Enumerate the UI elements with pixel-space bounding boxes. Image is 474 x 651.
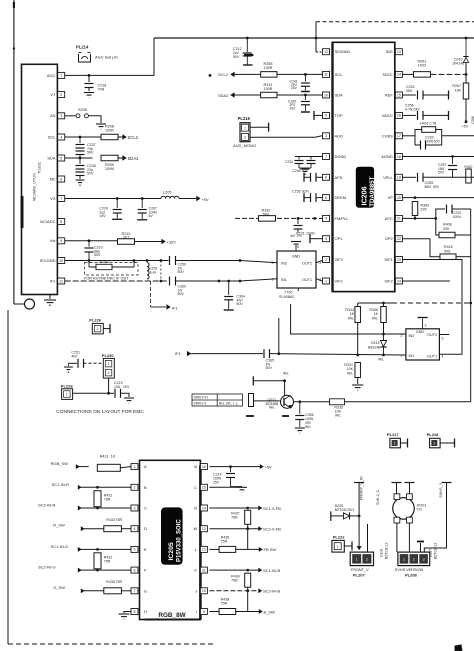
svg-text:J: J bbox=[195, 588, 197, 593]
svg-text:2: 2 bbox=[366, 558, 368, 562]
svg-text:12: 12 bbox=[202, 548, 206, 552]
svg-text:SCL: SCL bbox=[48, 134, 57, 139]
svg-text:E: E bbox=[144, 547, 147, 552]
svg-text:+5V: +5V bbox=[265, 464, 273, 469]
svg-text:PL217: PL217 bbox=[387, 432, 400, 437]
svg-text:IF1: IF1 bbox=[172, 306, 178, 310]
svg-text:FOR ASYMETRIC IF OUT: FOR ASYMETRIC IF OUT bbox=[84, 276, 129, 280]
svg-text:75R: 75R bbox=[231, 579, 238, 583]
svg-text:Y/C: Y/C bbox=[416, 508, 422, 512]
svg-text:SIOMAD: SIOMAD bbox=[335, 49, 351, 54]
svg-text:C246: C246 bbox=[292, 169, 301, 173]
svg-text:1K: 1K bbox=[111, 455, 116, 459]
svg-text:+5V: +5V bbox=[201, 197, 209, 202]
svg-text:FB SW: FB SW bbox=[264, 547, 277, 552]
svg-text:REF: REF bbox=[385, 93, 394, 98]
svg-text:L205: L205 bbox=[163, 191, 171, 195]
svg-text:100N: 100N bbox=[306, 232, 315, 236]
svg-text:R410: R410 bbox=[465, 165, 473, 169]
svg-text:OUT2: OUT2 bbox=[427, 333, 437, 337]
svg-text:PL216: PL216 bbox=[238, 116, 251, 121]
svg-text:W/L: W/L bbox=[378, 358, 384, 362]
svg-text:1: 1 bbox=[97, 327, 99, 331]
svg-text:2: 2 bbox=[244, 136, 246, 140]
svg-text:SVH-2_C: SVH-2_C bbox=[376, 489, 380, 505]
svg-text:I: I bbox=[196, 609, 197, 614]
svg-text:R433: R433 bbox=[106, 518, 115, 522]
svg-text:5: 5 bbox=[325, 237, 327, 241]
svg-text:2: 2 bbox=[134, 486, 136, 490]
svg-text:1K02: 1K02 bbox=[418, 64, 426, 68]
svg-text:FRONT_V: FRONT_V bbox=[351, 568, 369, 572]
svg-text:DGND: DGND bbox=[335, 154, 347, 159]
svg-text:SC1-0-FB: SC1-0-FB bbox=[263, 506, 281, 511]
svg-text:DEEM: DEEM bbox=[335, 195, 347, 200]
svg-text:70N: 70N bbox=[98, 88, 105, 92]
svg-text:B: B bbox=[144, 485, 147, 490]
svg-text:25V: 25V bbox=[291, 86, 298, 90]
svg-text:IF2/GND: IF2/GND bbox=[40, 258, 56, 263]
svg-text:10K: 10K bbox=[455, 89, 462, 93]
svg-text:4: 4 bbox=[60, 135, 62, 139]
svg-text:SC1-IN-R: SC1-IN-R bbox=[52, 482, 69, 487]
svg-text:5K6: 5K6 bbox=[444, 249, 450, 253]
svg-text:75R: 75R bbox=[104, 498, 111, 502]
svg-text:AFC: AFC bbox=[385, 216, 393, 221]
svg-text:21: 21 bbox=[397, 217, 401, 221]
svg-text:20K: 20K bbox=[443, 227, 450, 231]
svg-text:10: 10 bbox=[202, 589, 206, 593]
svg-text:25V: 25V bbox=[213, 481, 220, 485]
svg-text:7705: 7705 bbox=[284, 291, 292, 295]
svg-text:NC/ADC: NC/ADC bbox=[40, 219, 55, 224]
svg-text:13: 13 bbox=[202, 527, 206, 531]
svg-text:G: G bbox=[144, 588, 147, 593]
svg-text:IN1: IN1 bbox=[409, 354, 415, 358]
svg-text:16V: 16V bbox=[99, 214, 106, 218]
svg-text:3: 3 bbox=[423, 558, 425, 562]
svg-text:SC2-IN-G: SC2-IN-G bbox=[38, 564, 56, 569]
svg-text:10: 10 bbox=[324, 93, 328, 97]
svg-text:VIF2: VIF2 bbox=[335, 257, 344, 262]
svg-text:10U: 10U bbox=[114, 385, 121, 389]
svg-text:C234: C234 bbox=[285, 160, 293, 164]
svg-text:SDA2: SDA2 bbox=[128, 156, 140, 161]
svg-text:FRONT_V_IN: FRONT_V_IN bbox=[360, 476, 364, 500]
svg-text:SDA: SDA bbox=[335, 93, 344, 98]
svg-text:K: K bbox=[194, 568, 197, 573]
svg-text:11: 11 bbox=[202, 568, 206, 572]
svg-text:100N: 100N bbox=[453, 215, 462, 219]
svg-text:18: 18 bbox=[397, 155, 401, 159]
svg-text:9: 9 bbox=[203, 610, 205, 614]
svg-text:3: 3 bbox=[425, 324, 427, 328]
svg-text:9: 9 bbox=[325, 114, 327, 118]
svg-text:3: 3 bbox=[60, 114, 62, 118]
svg-text:W/L: W/L bbox=[269, 406, 275, 410]
svg-text:100R: 100R bbox=[264, 66, 273, 70]
svg-text:14: 14 bbox=[202, 506, 206, 510]
svg-text:63V: 63V bbox=[302, 169, 309, 173]
svg-text:17: 17 bbox=[397, 134, 401, 138]
svg-text:SDA: SDA bbox=[47, 155, 56, 160]
svg-text:10: 10 bbox=[59, 259, 63, 263]
svg-text:2: 2 bbox=[401, 334, 403, 338]
svg-text:+32V: +32V bbox=[167, 240, 177, 245]
svg-text:22K: 22K bbox=[421, 208, 428, 212]
svg-text:5: 5 bbox=[60, 156, 62, 160]
svg-text:63V: 63V bbox=[414, 108, 421, 112]
svg-text:8: 8 bbox=[134, 610, 136, 614]
svg-text:BZT03C12: BZT03C12 bbox=[433, 542, 437, 559]
svg-text:C: C bbox=[144, 506, 147, 511]
svg-text:TU201: TU201 bbox=[37, 161, 42, 174]
svg-text:22: 22 bbox=[397, 237, 401, 241]
svg-text:25V: 25V bbox=[290, 106, 297, 110]
svg-text:SIF1: SIF1 bbox=[384, 257, 393, 262]
svg-text:VS: VS bbox=[50, 196, 56, 201]
svg-text:50V: 50V bbox=[233, 55, 240, 59]
svg-text:16: 16 bbox=[202, 465, 206, 469]
svg-text:CONNECTIONS ON LAYOUT FOR EMC: CONNECTIONS ON LAYOUT FOR EMC bbox=[56, 409, 144, 415]
svg-text:SIF2: SIF2 bbox=[384, 279, 393, 284]
svg-text:11: 11 bbox=[324, 73, 328, 77]
svg-text:2: 2 bbox=[272, 261, 274, 265]
svg-text:23: 23 bbox=[397, 258, 401, 262]
svg-text:3: 3 bbox=[134, 506, 136, 510]
svg-text:C236: C236 bbox=[292, 190, 301, 194]
svg-text:75R: 75R bbox=[231, 516, 238, 520]
svg-text:1: 1 bbox=[134, 465, 136, 469]
svg-text:1: 1 bbox=[325, 279, 327, 283]
svg-text:100R: 100R bbox=[105, 129, 114, 133]
svg-text:SCL: SCL bbox=[335, 72, 344, 77]
svg-text:50V: 50V bbox=[266, 366, 273, 370]
svg-text:75R: 75R bbox=[221, 540, 228, 544]
svg-text:5: 5 bbox=[297, 245, 299, 249]
svg-text:SCL2: SCL2 bbox=[218, 72, 229, 77]
svg-text:4N7: 4N7 bbox=[71, 354, 77, 358]
svg-text:15: 15 bbox=[397, 93, 401, 97]
svg-text:75R: 75R bbox=[116, 518, 123, 522]
svg-text:SC1-IN-G: SC1-IN-G bbox=[51, 544, 69, 549]
svg-text:50V: 50V bbox=[94, 253, 101, 257]
svg-text:IC205: IC205 bbox=[168, 542, 175, 560]
svg-text:R201: R201 bbox=[100, 260, 109, 264]
svg-text:3: 3 bbox=[325, 134, 327, 138]
svg-text:SW01=L: SW01=L bbox=[194, 402, 208, 406]
svg-text:G_SW: G_SW bbox=[53, 585, 65, 590]
svg-text:D: D bbox=[144, 526, 147, 531]
svg-text:1: 1 bbox=[244, 126, 246, 130]
svg-text:PL222: PL222 bbox=[333, 534, 346, 539]
svg-text:W/L: W/L bbox=[283, 372, 289, 376]
svg-text:1: 1 bbox=[401, 354, 403, 358]
svg-text:VT: VT bbox=[50, 92, 56, 97]
svg-text:W/L: W/L bbox=[305, 425, 311, 429]
svg-text:1: 1 bbox=[108, 362, 110, 366]
svg-text:OUT2: OUT2 bbox=[302, 262, 312, 266]
svg-text:PL207: PL207 bbox=[353, 573, 366, 578]
svg-text:IN1: IN1 bbox=[281, 278, 287, 282]
svg-text:GND: GND bbox=[292, 255, 301, 259]
svg-text:BAS14B: BAS14B bbox=[368, 346, 380, 350]
svg-text:M: M bbox=[194, 526, 197, 531]
svg-text:Vst: Vst bbox=[50, 238, 57, 243]
svg-text:B_SW: B_SW bbox=[264, 609, 276, 614]
svg-text:VPLL: VPLL bbox=[383, 175, 394, 180]
svg-text:1: 1 bbox=[60, 74, 62, 78]
svg-text:8: 8 bbox=[60, 220, 62, 224]
svg-text:PL218: PL218 bbox=[427, 432, 440, 437]
svg-text:RGB_SW: RGB_SW bbox=[51, 461, 69, 466]
svg-text:VP: VP bbox=[387, 195, 393, 200]
svg-text:C231: C231 bbox=[296, 232, 305, 236]
svg-text:100N: 100N bbox=[425, 139, 434, 143]
svg-text:D213: D213 bbox=[371, 341, 379, 345]
svg-text:OUT1: OUT1 bbox=[302, 278, 312, 282]
svg-text:GND: GND bbox=[416, 330, 425, 334]
svg-text:15: 15 bbox=[202, 486, 206, 490]
svg-text:ML9MW_VTUN: ML9MW_VTUN bbox=[32, 173, 37, 201]
svg-text:R408: R408 bbox=[443, 223, 452, 227]
svg-text:75R: 75R bbox=[104, 560, 111, 564]
svg-text:CTB: CTB bbox=[430, 122, 438, 126]
svg-text:AGC test pin: AGC test pin bbox=[95, 55, 118, 60]
svg-text:2K7: 2K7 bbox=[123, 235, 129, 239]
svg-text:50V: 50V bbox=[87, 172, 94, 176]
svg-text:A: A bbox=[144, 464, 147, 469]
svg-text:H401: H401 bbox=[420, 122, 429, 126]
svg-text:VIF1: VIF1 bbox=[335, 279, 344, 284]
svg-text:W/L: W/L bbox=[372, 316, 378, 320]
svg-text:4: 4 bbox=[134, 527, 136, 531]
svg-text:AUD_MONO: AUD_MONO bbox=[233, 143, 256, 148]
svg-text:5: 5 bbox=[134, 548, 136, 552]
svg-text:6V: 6V bbox=[149, 214, 154, 218]
svg-text:PL228: PL228 bbox=[61, 384, 74, 389]
svg-text:OUT1: OUT1 bbox=[427, 354, 437, 358]
svg-text:B: B bbox=[194, 464, 197, 469]
svg-text:7: 7 bbox=[325, 155, 327, 159]
svg-text:IF1: IF1 bbox=[175, 351, 182, 356]
svg-text:VAGC: VAGC bbox=[382, 113, 393, 118]
svg-text:1N4148: 1N4148 bbox=[452, 62, 464, 66]
svg-text:SCL2: SCL2 bbox=[128, 135, 139, 140]
svg-text:75R: 75R bbox=[221, 602, 228, 606]
svg-text:ING: ING bbox=[386, 49, 393, 54]
svg-text:50V: 50V bbox=[178, 292, 185, 296]
svg-text:IN2: IN2 bbox=[281, 262, 287, 266]
svg-text:BZT03C12: BZT03C12 bbox=[384, 542, 388, 559]
svg-text:SDA2: SDA2 bbox=[218, 93, 229, 98]
svg-text:H: H bbox=[144, 609, 147, 614]
svg-text:RGB_8W: RGB_8W bbox=[158, 612, 186, 619]
svg-text:5: 5 bbox=[442, 337, 444, 341]
svg-text:BG, DK, I, L: BG, DK, I, L bbox=[219, 402, 238, 406]
svg-text:2: 2 bbox=[325, 258, 327, 262]
svg-text:50V: 50V bbox=[433, 185, 440, 189]
svg-text:1KV: 1KV bbox=[123, 385, 130, 389]
svg-text:SW01=H: SW01=H bbox=[194, 396, 209, 400]
svg-text:OP2: OP2 bbox=[385, 236, 394, 241]
svg-text:PL230: PL230 bbox=[102, 353, 115, 358]
svg-text:AUD: AUD bbox=[335, 133, 344, 138]
svg-text:NC: NC bbox=[50, 176, 56, 181]
svg-text:CVBS: CVBS bbox=[382, 133, 393, 138]
svg-text:S205: S205 bbox=[78, 108, 87, 112]
svg-text:9: 9 bbox=[60, 239, 62, 243]
svg-text:4: 4 bbox=[442, 354, 444, 358]
svg-text:75R: 75R bbox=[116, 580, 123, 584]
svg-text:12: 12 bbox=[324, 50, 328, 54]
svg-text:1uH: 1uH bbox=[150, 270, 157, 274]
svg-text:2: 2 bbox=[413, 558, 415, 562]
svg-text:BZT03C5V1: BZT03C5V1 bbox=[335, 508, 355, 512]
svg-text:SVHS VERSION: SVHS VERSION bbox=[395, 568, 424, 572]
svg-text:16: 16 bbox=[397, 114, 401, 118]
svg-text:IN2: IN2 bbox=[409, 334, 415, 338]
svg-text:SI 60862: SI 60862 bbox=[279, 295, 294, 299]
svg-text:1: 1 bbox=[356, 558, 358, 562]
svg-text:AGC: AGC bbox=[47, 73, 56, 78]
svg-text:6: 6 bbox=[60, 177, 62, 181]
svg-text:6: 6 bbox=[134, 568, 136, 572]
svg-text:1: 1 bbox=[403, 558, 405, 562]
svg-text:2: 2 bbox=[60, 93, 62, 97]
svg-text:PL214: PL214 bbox=[76, 45, 89, 50]
svg-text:SC1-IN-B: SC1-IN-B bbox=[263, 568, 280, 573]
svg-text:W/L: W/L bbox=[335, 414, 341, 418]
svg-text:1: 1 bbox=[66, 393, 68, 397]
svg-text:50V: 50V bbox=[178, 270, 185, 274]
svg-text:R411: R411 bbox=[100, 455, 109, 459]
svg-text:5K6: 5K6 bbox=[263, 212, 269, 216]
svg-text:TAGC: TAGC bbox=[382, 72, 393, 77]
svg-text:N: N bbox=[194, 506, 197, 511]
svg-text:R_SW: R_SW bbox=[53, 523, 65, 528]
svg-text:1: 1 bbox=[394, 442, 396, 446]
svg-text:50V: 50V bbox=[87, 151, 94, 155]
svg-text:13: 13 bbox=[397, 50, 401, 54]
svg-text:SC2-IN-B: SC2-IN-B bbox=[263, 589, 280, 594]
svg-text:50V: 50V bbox=[438, 171, 445, 175]
svg-text:IC206: IC206 bbox=[360, 186, 369, 205]
svg-text:W/L: W/L bbox=[348, 316, 354, 320]
svg-text:PL226: PL226 bbox=[89, 318, 102, 323]
svg-text:82N: 82N bbox=[302, 190, 309, 194]
svg-text:SC2-IN-R: SC2-IN-R bbox=[38, 503, 55, 508]
svg-text:C306: C306 bbox=[379, 549, 383, 557]
svg-text:50V: 50V bbox=[237, 302, 244, 306]
svg-text:1: 1 bbox=[272, 278, 274, 282]
svg-text:24: 24 bbox=[397, 279, 401, 283]
svg-text:6: 6 bbox=[325, 196, 327, 200]
svg-text:C: C bbox=[194, 485, 197, 490]
svg-text:1: 1 bbox=[433, 442, 435, 446]
svg-text:19: 19 bbox=[397, 176, 401, 180]
svg-text:11: 11 bbox=[59, 279, 63, 283]
svg-text:P15V330_SOIC: P15V330_SOIC bbox=[177, 519, 183, 562]
svg-text:2: 2 bbox=[108, 371, 110, 375]
svg-text:FM/PLL: FM/PLL bbox=[335, 216, 350, 221]
svg-text:50V: 50V bbox=[434, 139, 441, 143]
svg-text:7: 7 bbox=[60, 197, 62, 201]
svg-text:TDA9885T: TDA9885T bbox=[369, 176, 376, 206]
svg-text:IF1: IF1 bbox=[50, 278, 57, 283]
svg-text:20: 20 bbox=[397, 196, 401, 200]
svg-text:100R: 100R bbox=[264, 87, 273, 91]
svg-text:AS: AS bbox=[50, 113, 56, 118]
svg-text:TOP: TOP bbox=[335, 113, 343, 118]
svg-text:R267: R267 bbox=[452, 84, 461, 88]
svg-text:86N: 86N bbox=[425, 185, 432, 189]
svg-text:AGND: AGND bbox=[381, 154, 393, 159]
svg-text:7: 7 bbox=[134, 589, 136, 593]
svg-text:PL208: PL208 bbox=[405, 573, 418, 578]
svg-text:R436: R436 bbox=[106, 580, 115, 584]
svg-text:14: 14 bbox=[397, 73, 401, 77]
svg-text:4-7N: 4-7N bbox=[405, 108, 413, 112]
svg-text:8: 8 bbox=[325, 176, 327, 180]
svg-text:AFD: AFD bbox=[335, 175, 343, 180]
svg-text:4: 4 bbox=[325, 217, 327, 221]
svg-text:SVHS_Y: SVHS_Y bbox=[439, 482, 443, 497]
svg-text:1: 1 bbox=[337, 545, 339, 549]
svg-text:OP1: OP1 bbox=[335, 236, 344, 241]
svg-text:0E8: 0E8 bbox=[406, 89, 412, 93]
svg-text:W/L: W/L bbox=[347, 371, 353, 375]
svg-text:100M: 100M bbox=[105, 167, 114, 171]
svg-text:SC2-0-FB: SC2-0-FB bbox=[263, 527, 281, 532]
svg-text:+5V: +5V bbox=[462, 124, 469, 128]
